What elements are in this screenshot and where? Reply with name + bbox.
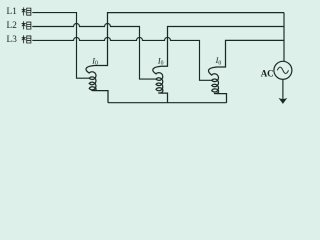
- svg-text:L2: L2: [7, 20, 18, 30]
- svg-text:L3: L3: [7, 34, 18, 44]
- wire L1 phase rail with crossover hops, drop and connection to coil 1: [32, 13, 89, 79]
- AC source G1 (circle with sine): [274, 61, 292, 79]
- inductor l0 coil 3 with feed wire to AC node and step down to neutral bus: [209, 40, 285, 102]
- wire AC source vertical (node N): [283, 13, 285, 62]
- wire L3 phase rail with crossover hops, drop and connection to coil 3: [32, 37, 211, 80]
- wire neutral bottom bus: [108, 102, 227, 104]
- label L1相: [7, 6, 31, 16]
- label L3相: [7, 34, 31, 44]
- wire AC source bottom lead with down arrow: [282, 79, 284, 99]
- svg-text:AC: AC: [261, 68, 274, 78]
- svg-text:L1: L1: [7, 6, 18, 16]
- inductor l0 coil 1 with feed wire to AC node and step down to neutral bus: [86, 13, 284, 103]
- inductor l0 coil 2 with feed wire to AC node and step down to neutral bus: [153, 27, 284, 103]
- label L2相: [7, 20, 31, 30]
- wire L2 phase rail with crossover hops, drop and connection to coil 2: [32, 24, 156, 80]
